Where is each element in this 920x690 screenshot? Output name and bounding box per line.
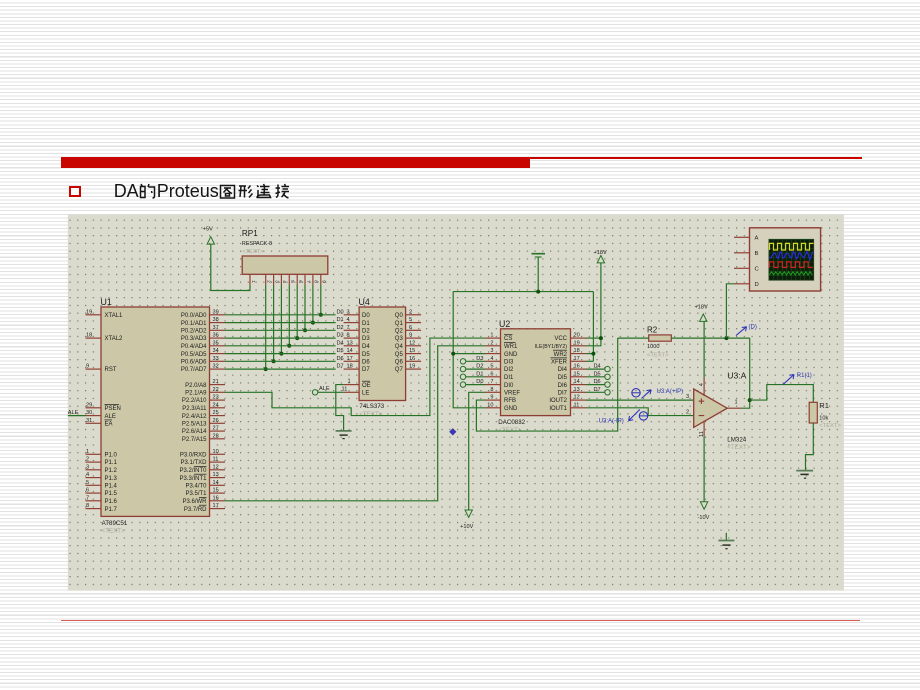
- svg-text:11: 11: [574, 402, 580, 408]
- svg-text:1: 1: [86, 449, 89, 455]
- svg-text:<TEXT>: <TEXT>: [102, 528, 125, 535]
- svg-text:-10V: -10V: [698, 515, 710, 521]
- svg-text:P3.6/WR: P3.6/WR: [182, 499, 207, 505]
- svg-text:33: 33: [213, 356, 219, 362]
- svg-text:OE: OE: [362, 383, 371, 389]
- svg-text:26: 26: [213, 418, 219, 424]
- svg-text:P2.1/A9: P2.1/A9: [185, 391, 207, 397]
- svg-text:DI0: DI0: [504, 383, 514, 389]
- svg-text:U2: U2: [499, 319, 510, 329]
- title bullet square: [69, 186, 81, 198]
- svg-text:Q4: Q4: [395, 344, 404, 350]
- svg-text:GND: GND: [504, 352, 518, 358]
- svg-text:Q7: Q7: [395, 367, 404, 373]
- U2 left pin stubs 1-10: [485, 333, 520, 412]
- wire output to R1 top: [750, 385, 814, 403]
- svg-text:RESPACK-8: RESPACK-8: [242, 241, 272, 247]
- svg-text:D5: D5: [362, 352, 370, 358]
- svg-text:74LS373: 74LS373: [359, 403, 384, 410]
- wire IOUT2 to op-amp +input: [586, 399, 694, 401]
- svg-text:+5V: +5V: [203, 226, 213, 232]
- svg-text:P2.3/A11: P2.3/A11: [182, 406, 207, 412]
- svg-text:GND: GND: [504, 406, 518, 412]
- svg-text:P3.3/INT1: P3.3/INT1: [179, 476, 207, 482]
- svg-text:19: 19: [86, 309, 92, 315]
- svg-text:Q5: Q5: [395, 352, 404, 358]
- svg-text:D1: D1: [337, 317, 344, 323]
- svg-text:P0.4/AD4: P0.4/AD4: [181, 344, 207, 350]
- svg-text:32: 32: [213, 364, 219, 370]
- wire ALE terminal to LE pin 11: [318, 391, 344, 393]
- svg-text:D: D: [755, 282, 759, 288]
- svg-text:7: 7: [490, 379, 493, 385]
- svg-text:11: 11: [699, 431, 705, 437]
- svg-text:VCC: VCC: [554, 336, 567, 342]
- svg-text:15: 15: [409, 348, 415, 354]
- power terminal +18V (DAC VCC/ILE): [594, 250, 607, 263]
- U1 left pin stubs: [86, 309, 124, 512]
- power terminal +18V (op-amp V+): [695, 305, 708, 322]
- svg-text:3: 3: [273, 280, 279, 283]
- svg-text:D6: D6: [594, 379, 601, 385]
- wire op-amp output up to node D: [742, 338, 752, 408]
- svg-text:7: 7: [305, 280, 311, 283]
- svg-text:P2.2/A10: P2.2/A10: [182, 398, 207, 404]
- ground symbol below R1: [796, 471, 813, 479]
- svg-text:8: 8: [86, 503, 89, 509]
- svg-text:P1.6: P1.6: [105, 499, 118, 505]
- resistor R2 1000: [618, 326, 672, 359]
- svg-text:12: 12: [409, 340, 415, 346]
- svg-text:P2.0/A8: P2.0/A8: [185, 383, 207, 389]
- svg-text:4: 4: [86, 472, 89, 478]
- svg-text:<TEXT>: <TEXT>: [242, 249, 264, 255]
- svg-text:3: 3: [490, 348, 493, 354]
- net labels D0-D7 with U4 pin numbers: [337, 309, 353, 369]
- svg-text:DI5: DI5: [558, 375, 568, 381]
- title text Proteus: [157, 181, 219, 202]
- svg-text:IOUT1: IOUT1: [549, 406, 567, 412]
- svg-text:9: 9: [409, 333, 412, 339]
- svg-text:+18V: +18V: [695, 305, 708, 311]
- svg-text:11: 11: [213, 457, 219, 463]
- U4 left pin stubs D0-D7 OE LE: [342, 313, 371, 397]
- svg-text:15: 15: [574, 371, 580, 377]
- svg-text:U4: U4: [359, 297, 370, 307]
- svg-text:D5: D5: [594, 371, 601, 377]
- svg-text:RFB: RFB: [504, 398, 516, 404]
- title text DA: [114, 181, 139, 202]
- svg-text:D5: D5: [337, 348, 344, 354]
- svg-text:D0: D0: [476, 379, 483, 385]
- svg-text:Q2: Q2: [395, 329, 404, 335]
- svg-text:18: 18: [86, 333, 92, 339]
- svg-text:P0.3/AD3: P0.3/AD3: [181, 336, 207, 342]
- wire node D up to oscilloscope channel D: [726, 284, 734, 338]
- floating ground near -10V: [718, 533, 734, 549]
- power terminal +5V: [203, 226, 215, 244]
- svg-text:P3.0/RXD: P3.0/RXD: [180, 453, 207, 459]
- svg-text:1: 1: [250, 280, 256, 283]
- terminals D4 D5 D6 D7 into U2 DI4-DI7: [586, 364, 610, 395]
- svg-text:D1: D1: [362, 321, 370, 327]
- svg-text:P0.7/AD7: P0.7/AD7: [181, 367, 207, 373]
- svg-text:9: 9: [86, 364, 89, 370]
- svg-text:P3.4/T0: P3.4/T0: [185, 484, 207, 490]
- IC U4 74LS373 body: [359, 297, 406, 418]
- svg-text:U3:A: U3:A: [727, 371, 746, 381]
- svg-text:D2: D2: [476, 364, 483, 370]
- svg-text:CS: CS: [504, 336, 512, 342]
- svg-text:27: 27: [213, 426, 219, 432]
- svg-text:9: 9: [490, 395, 493, 401]
- svg-text:12: 12: [574, 395, 580, 401]
- svg-text:15: 15: [213, 488, 219, 494]
- svg-text:2: 2: [409, 309, 412, 315]
- svg-text:D4: D4: [362, 344, 370, 350]
- svg-text:<TEXT>: <TEXT>: [647, 352, 669, 358]
- svg-text:D7: D7: [362, 367, 370, 373]
- svg-text:U3:A(-IP): U3:A(-IP): [599, 419, 624, 425]
- svg-text:P3.5/T1: P3.5/T1: [185, 491, 207, 497]
- svg-text:D7: D7: [594, 387, 601, 393]
- svg-text:2: 2: [490, 340, 493, 346]
- svg-text:D6: D6: [337, 356, 344, 362]
- svg-text:14: 14: [574, 379, 580, 385]
- svg-text:16: 16: [409, 356, 415, 362]
- resistor pack RP1 RESPACK-8 body: [242, 229, 328, 274]
- svg-text:3: 3: [86, 464, 89, 470]
- svg-text:24: 24: [213, 402, 219, 408]
- svg-text:16: 16: [574, 364, 580, 370]
- svg-text:P1.7: P1.7: [105, 507, 118, 513]
- svg-text:2: 2: [686, 410, 689, 416]
- svg-text:P0.6/AD6: P0.6/AD6: [181, 360, 207, 366]
- oscilloscope pin stubs A-D: [734, 237, 750, 283]
- svg-text:+18V: +18V: [594, 250, 607, 256]
- svg-text:4: 4: [281, 280, 287, 283]
- svg-text:XTAL1: XTAL1: [105, 313, 124, 319]
- svg-text:P2.7/A15: P2.7/A15: [182, 437, 207, 443]
- svg-text:8: 8: [313, 280, 319, 283]
- svg-text:35: 35: [213, 340, 219, 346]
- svg-text:1000: 1000: [647, 344, 659, 350]
- svg-text:D4: D4: [337, 340, 344, 346]
- svg-text:38: 38: [213, 317, 219, 323]
- svg-text:13: 13: [574, 387, 580, 393]
- blue diamond marker: [449, 428, 456, 435]
- svg-text:D3: D3: [337, 333, 344, 339]
- svg-text:12: 12: [213, 464, 219, 470]
- svg-text:(D): (D): [749, 325, 757, 331]
- wire R1 bottom to ground: [806, 423, 814, 471]
- RP1 pin 2-9 wires down to P0 bus with junctions: [264, 285, 323, 371]
- svg-text:DI2: DI2: [504, 367, 514, 373]
- svg-text:19: 19: [409, 364, 415, 370]
- svg-text:6: 6: [86, 488, 89, 494]
- svg-text:U1: U1: [101, 297, 112, 307]
- svg-text:<TEXT>: <TEXT>: [498, 427, 521, 434]
- svg-text:10: 10: [213, 449, 219, 455]
- svg-text:P0.2/AD2: P0.2/AD2: [181, 329, 207, 335]
- svg-text:EA: EA: [105, 422, 113, 428]
- schematic canvas background: [68, 215, 844, 591]
- svg-text:34: 34: [213, 348, 219, 354]
- svg-text:<TEXT>: <TEXT>: [819, 423, 841, 429]
- svg-text:P1.3: P1.3: [105, 476, 118, 482]
- svg-text:Q3: Q3: [395, 336, 404, 342]
- svg-text:P3.1/TXD: P3.1/TXD: [180, 460, 207, 466]
- svg-text:D2: D2: [362, 329, 370, 335]
- svg-text:<TEXT>: <TEXT>: [359, 411, 382, 418]
- svg-text:1: 1: [348, 378, 351, 384]
- svg-text:ALE: ALE: [319, 386, 330, 392]
- scope trace channel C red square wave: [770, 262, 813, 268]
- wire U4 OE pin1 to ground: [336, 385, 344, 431]
- svg-text:RP1: RP1: [242, 229, 258, 238]
- title CJK glyph 连: [255, 183, 272, 200]
- svg-text:17: 17: [574, 356, 580, 362]
- svg-text:D1: D1: [476, 371, 483, 377]
- svg-text:P3.7/RD: P3.7/RD: [184, 507, 207, 513]
- svg-text:10: 10: [487, 402, 493, 408]
- svg-text:D2: D2: [337, 325, 344, 331]
- bottom accent line: [61, 620, 860, 622]
- svg-text:28: 28: [213, 433, 219, 439]
- svg-text:D0: D0: [362, 313, 370, 319]
- svg-text:P1.2: P1.2: [105, 468, 118, 474]
- svg-text:<TEXT>: <TEXT>: [727, 444, 750, 451]
- title accent thin line: [530, 157, 862, 159]
- svg-text:Q0: Q0: [395, 313, 404, 319]
- svg-text:+10V: +10V: [460, 524, 473, 530]
- U1 right pin stubs P0 P2 P3: [179, 309, 225, 512]
- svg-text:4: 4: [490, 356, 493, 362]
- wire net A9: U1 P2.1 to U2 CS: [225, 338, 485, 416]
- net label ALE at U1 left edge: [68, 410, 86, 416]
- svg-text:5: 5: [409, 317, 412, 323]
- svg-text:Q1: Q1: [395, 321, 404, 327]
- probe U3:A(+IP): [632, 389, 683, 399]
- svg-text:21: 21: [213, 379, 219, 385]
- ground symbol below U4: [336, 431, 352, 439]
- svg-text:23: 23: [213, 395, 219, 401]
- svg-text:LM324: LM324: [727, 436, 746, 443]
- svg-text:19: 19: [574, 340, 580, 346]
- svg-text:AT89C51: AT89C51: [102, 520, 128, 527]
- svg-text:R2: R2: [647, 326, 658, 335]
- svg-text:7: 7: [86, 495, 89, 501]
- svg-text:13: 13: [213, 472, 219, 478]
- scope trace channel D green zigzag: [769, 272, 812, 275]
- svg-text:XTAL2: XTAL2: [105, 336, 124, 342]
- svg-text:5: 5: [86, 480, 89, 486]
- svg-text:DI4: DI4: [558, 367, 568, 373]
- svg-text:DI3: DI3: [504, 360, 514, 366]
- svg-text:10k: 10k: [819, 416, 828, 422]
- U4 right pin stubs Q0-Q7: [395, 309, 421, 373]
- svg-text:P1.4: P1.4: [105, 484, 118, 490]
- IC U1 AT89C51 body: [101, 297, 210, 535]
- wire +18V to op-amp pin4: [703, 321, 705, 377]
- svg-text:36: 36: [213, 333, 219, 339]
- svg-text:Q6: Q6: [395, 360, 404, 366]
- wire +18V down to VCC and ILE: [586, 263, 603, 346]
- ground net wires to CS-side: AGND, DGND, WR2, XFER: [451, 258, 595, 408]
- wire RFB to R2 left: [476, 338, 617, 431]
- scope trace channel B blue wave: [769, 251, 813, 259]
- svg-text:1: 1: [735, 400, 738, 406]
- svg-text:A: A: [755, 235, 759, 241]
- power terminal +10V (down arrow): [460, 510, 473, 530]
- svg-text:P0.1/AD1: P0.1/AD1: [181, 321, 207, 327]
- svg-text:R1: R1: [819, 401, 829, 410]
- svg-text:ALE: ALE: [68, 410, 79, 416]
- svg-text:22: 22: [213, 387, 219, 393]
- svg-text:37: 37: [213, 325, 219, 331]
- svg-text:31: 31: [86, 418, 92, 424]
- svg-text:DI7: DI7: [558, 391, 568, 397]
- wire net WR: U1 P3.6 to U2 WR1: [225, 346, 485, 501]
- svg-text:DAC0832: DAC0832: [498, 419, 525, 426]
- svg-text:R1(1): R1(1): [797, 373, 812, 379]
- wire R2 right to node D and op-amp output: [671, 336, 749, 340]
- resistor R1 10k: [809, 401, 841, 429]
- title CJK glyph 图: [219, 183, 236, 200]
- svg-text:D7: D7: [337, 364, 344, 370]
- svg-text:P2.4/A12: P2.4/A12: [182, 414, 207, 420]
- svg-text:WR2: WR2: [554, 352, 568, 358]
- svg-text:DI6: DI6: [558, 383, 568, 389]
- svg-text:30: 30: [86, 410, 92, 416]
- svg-text:5: 5: [490, 364, 493, 370]
- svg-text:25: 25: [213, 410, 219, 416]
- svg-text:P1.1: P1.1: [105, 460, 118, 466]
- svg-text:9: 9: [321, 280, 327, 283]
- svg-text:B: B: [755, 251, 759, 257]
- svg-text:PSEN: PSEN: [105, 406, 121, 412]
- svg-text:6: 6: [409, 325, 412, 331]
- svg-text:20: 20: [574, 333, 580, 339]
- svg-text:RST: RST: [105, 367, 117, 373]
- U2 right pin stubs 20-11: [535, 333, 586, 412]
- probe label (D): [736, 325, 757, 336]
- svg-text:P2.5/A13: P2.5/A13: [182, 422, 207, 428]
- svg-text:WR1: WR1: [504, 344, 518, 350]
- wire IOUT1 to op-amp -input: [586, 408, 694, 416]
- wire +5V to RP1 pin1: [211, 244, 250, 290]
- oscilloscope screen: [769, 239, 814, 280]
- title accent bar: [61, 157, 530, 168]
- svg-text:P2.6/A14: P2.6/A14: [182, 429, 207, 435]
- svg-text:16: 16: [213, 495, 219, 501]
- IC U2 DAC0832 body: [498, 319, 570, 434]
- title CJK glyph 接: [273, 183, 290, 200]
- svg-text:6: 6: [490, 371, 493, 377]
- probe U3:A(-IP): [599, 410, 648, 425]
- title CJK glyph 的: [139, 183, 156, 200]
- svg-text:17: 17: [213, 503, 219, 509]
- oscilloscope body: [750, 228, 821, 291]
- svg-text:P0.5/AD5: P0.5/AD5: [181, 352, 207, 358]
- svg-text:XFER: XFER: [551, 360, 568, 366]
- svg-text:P1.5: P1.5: [105, 491, 118, 497]
- svg-text:8: 8: [490, 387, 493, 393]
- svg-text:C: C: [755, 266, 760, 272]
- svg-text:29: 29: [86, 402, 92, 408]
- svg-text:5: 5: [289, 280, 295, 283]
- svg-text:18: 18: [574, 348, 580, 354]
- svg-text:P0.0/AD0: P0.0/AD0: [181, 313, 207, 319]
- svg-text:LE: LE: [362, 391, 369, 397]
- terminal ALE (to U4 LE): [312, 386, 329, 395]
- svg-text:P3.2/INT0: P3.2/INT0: [179, 468, 207, 474]
- svg-text:D6: D6: [362, 360, 370, 366]
- svg-text:U3:A(+IP): U3:A(+IP): [657, 389, 684, 395]
- svg-text:6: 6: [297, 280, 303, 283]
- scope trace channel A yellow square wave: [770, 243, 814, 250]
- title CJK glyph 形: [237, 183, 254, 200]
- svg-text:D4: D4: [594, 364, 601, 370]
- svg-text:ILE(BY1/BY2): ILE(BY1/BY2): [535, 344, 568, 350]
- svg-text:3: 3: [686, 394, 689, 400]
- svg-text:4: 4: [699, 383, 705, 386]
- wires P0.0-P0.7 from U1 to U4 (nets D0-D7): [225, 315, 336, 369]
- RP1 pin stubs and rotated pin numbers 1-9: [250, 274, 327, 285]
- svg-text:2: 2: [266, 280, 272, 283]
- svg-text:IOUT2: IOUT2: [549, 398, 567, 404]
- svg-text:2: 2: [86, 457, 89, 463]
- wire VREF to +10V terminal: [469, 392, 485, 510]
- op-amp U3:A LM324: [686, 371, 751, 451]
- ground symbol above U2: [532, 254, 546, 257]
- svg-text:P1.0: P1.0: [105, 453, 118, 459]
- power terminal -10V (op-amp V-): [698, 437, 710, 522]
- svg-text:1: 1: [490, 333, 493, 339]
- svg-text:D3: D3: [476, 356, 483, 362]
- svg-text:D3: D3: [362, 336, 370, 342]
- probe label R1(1): [783, 373, 812, 385]
- svg-text:14: 14: [213, 480, 219, 486]
- svg-text:D0: D0: [337, 309, 344, 315]
- svg-text:ALE: ALE: [105, 414, 116, 420]
- svg-text:39: 39: [213, 309, 219, 315]
- svg-text:VREF: VREF: [504, 391, 520, 397]
- terminals D3 D2 D1 D0 into U2 DI3-DI0: [460, 356, 485, 387]
- svg-text:DI1: DI1: [504, 375, 514, 381]
